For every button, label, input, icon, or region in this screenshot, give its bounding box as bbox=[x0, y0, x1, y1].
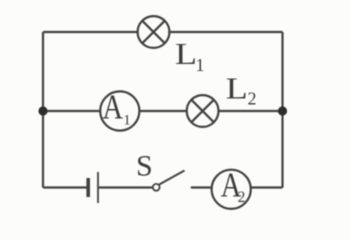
label L1 bbox=[175, 36, 205, 75]
ammeter A2 (circle) bbox=[212, 170, 251, 209]
label A2 (meter face) bbox=[221, 165, 246, 206]
svg-text:A: A bbox=[103, 87, 124, 126]
wire: battery to switch bbox=[99, 186, 153, 188]
wire: middle-left segment bbox=[43, 110, 100, 112]
ammeter A1 (circle) bbox=[100, 91, 139, 130]
svg-text:L: L bbox=[175, 36, 197, 71]
wire: bottom-left segment bbox=[43, 186, 87, 188]
switch S bbox=[153, 171, 185, 191]
wire: middle-right segment bbox=[219, 110, 283, 112]
battery cell bbox=[88, 172, 98, 203]
svg-text:2: 2 bbox=[248, 89, 257, 109]
wire: middle-center segment bbox=[139, 110, 186, 112]
wire: left vertical bbox=[42, 32, 44, 188]
label L2 bbox=[226, 70, 257, 108]
svg-text:1: 1 bbox=[123, 112, 131, 128]
lamp L2 bbox=[187, 95, 219, 127]
svg-text:1: 1 bbox=[196, 55, 205, 75]
label A1 (meter face) bbox=[103, 87, 131, 128]
lamp L1 bbox=[138, 16, 170, 48]
node: left junction bbox=[38, 106, 47, 115]
svg-text:S: S bbox=[136, 149, 153, 182]
wire: right vertical bbox=[281, 32, 283, 188]
svg-text:L: L bbox=[226, 70, 248, 105]
wire: bottom-right segment bbox=[251, 186, 283, 188]
node: right junction bbox=[278, 106, 287, 115]
svg-text:2: 2 bbox=[238, 189, 246, 206]
wire: top-left segment bbox=[43, 31, 138, 33]
wire: top-right segment bbox=[169, 31, 282, 33]
wire: switch to A2 bbox=[191, 186, 212, 188]
